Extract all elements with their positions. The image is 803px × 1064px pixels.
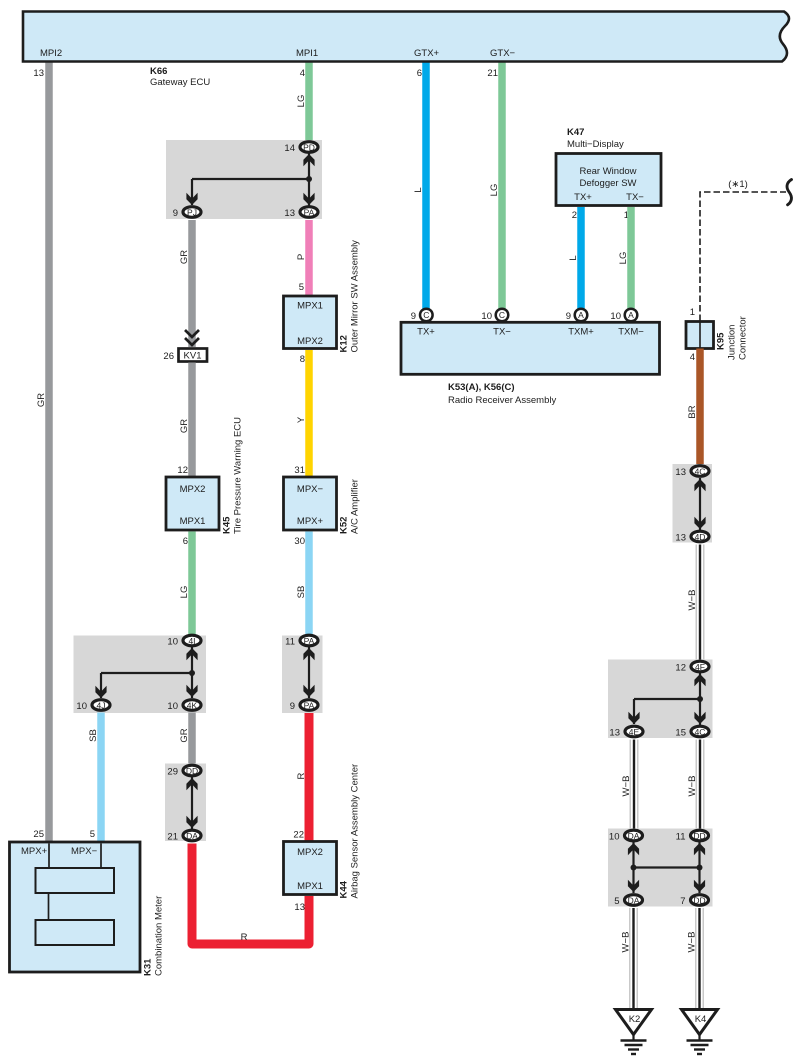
internal wiring lines <box>48 844 50 869</box>
svg-text:K47: K47 <box>567 127 584 138</box>
svg-text:5: 5 <box>299 282 304 293</box>
svg-text:GR: GR <box>36 393 47 407</box>
svg-text:13: 13 <box>33 68 44 79</box>
connector A pin10 <box>625 309 638 322</box>
connector DA pin21 <box>183 830 201 841</box>
svg-text:MPX−: MPX− <box>297 484 324 495</box>
svg-text:2: 2 <box>572 210 577 221</box>
svg-text:K45: K45 <box>222 516 233 534</box>
connector PJ pin9 <box>183 207 201 218</box>
dashed future wire (*1) <box>700 192 786 321</box>
svg-text:K52: K52 <box>339 517 350 534</box>
svg-text:4E: 4E <box>629 727 640 737</box>
svg-text:15: 15 <box>675 728 686 739</box>
svg-text:GR: GR <box>179 250 190 264</box>
svg-text:1: 1 <box>690 307 695 318</box>
connector 4F pin12 <box>691 661 709 672</box>
wire BR from K95 pin4 to 4C13 <box>696 349 704 471</box>
svg-text:4K: 4K <box>187 701 198 711</box>
internal block 1 <box>36 868 115 893</box>
wire W-B from 4C to DD11 <box>696 740 705 830</box>
svg-text:DA: DA <box>628 831 640 841</box>
svg-text:TXM+: TXM+ <box>568 327 594 338</box>
svg-text:4C: 4C <box>695 727 706 737</box>
svg-text:PA: PA <box>304 636 315 646</box>
svg-text:L: L <box>568 255 579 260</box>
svg-text:GR: GR <box>179 419 190 433</box>
svg-text:4J: 4J <box>97 701 106 711</box>
svg-text:10: 10 <box>76 701 87 712</box>
connector PA pin13 <box>300 207 318 218</box>
svg-text:13: 13 <box>284 208 295 219</box>
connector PD pin14 <box>300 142 318 153</box>
svg-text:MPI2: MPI2 <box>40 48 62 59</box>
svg-text:KV1: KV1 <box>184 351 202 362</box>
svg-text:11: 11 <box>676 832 686 843</box>
svg-text:4F: 4F <box>695 662 705 672</box>
wire GR from KV1 to K45 pin12 <box>188 363 196 479</box>
wire link 4C to 4D <box>699 478 701 530</box>
node dot <box>306 176 312 182</box>
wire L from GTX+ pin6 to radio C9 <box>422 62 430 310</box>
svg-text:A/C Amplifier: A/C Amplifier <box>350 479 361 534</box>
connector 4E pin13 <box>625 726 643 737</box>
svg-text:PA: PA <box>304 701 315 711</box>
svg-text:13: 13 <box>609 728 620 739</box>
svg-text:MPX2: MPX2 <box>297 847 323 858</box>
svg-text:4: 4 <box>690 352 695 363</box>
svg-text:R: R <box>296 772 307 779</box>
connector DD pin29 <box>183 765 201 776</box>
svg-text:GTX−: GTX− <box>490 48 516 59</box>
svg-text:6: 6 <box>183 536 188 547</box>
svg-text:10: 10 <box>481 311 492 322</box>
svg-text:DA: DA <box>628 896 640 906</box>
connector C pin10 <box>496 309 509 322</box>
wire SB from 4J to K31 pin5 <box>97 713 105 843</box>
connector 4I pin10 <box>183 635 201 646</box>
K52 A/C Amplifier box <box>284 477 337 530</box>
K12 Outer Mirror SW Assembly box <box>284 296 337 349</box>
svg-text:LG: LG <box>618 252 629 265</box>
top bus bar (Gateway ECU) <box>23 12 789 62</box>
svg-text:K44: K44 <box>339 880 350 898</box>
svg-text:9: 9 <box>411 311 416 322</box>
wire GR from MPI2 pin13 to K31 pin25 <box>45 62 53 842</box>
svg-text:R: R <box>241 932 248 943</box>
wire R from PA9 to K44 pin22 <box>305 713 314 842</box>
wire LG from GTX- pin21 to radio C10 <box>498 62 506 310</box>
svg-text:Rear Window: Rear Window <box>579 166 636 177</box>
svg-text:K12: K12 <box>339 335 350 352</box>
wire L from K47 TX+ pin2 to radio A9 <box>577 207 585 310</box>
svg-text:W−B: W−B <box>687 590 698 611</box>
wire W-B from 4D to 4F <box>696 545 705 662</box>
connector PA pin9 <box>300 700 318 711</box>
svg-text:8: 8 <box>300 354 305 365</box>
svg-text:Radio Receiver Assembly: Radio Receiver Assembly <box>448 395 556 406</box>
connector 4C pin13 <box>691 466 709 477</box>
connector PA pin11 <box>300 635 318 646</box>
svg-text:K4: K4 <box>695 1014 707 1025</box>
svg-text:TX+: TX+ <box>574 192 592 203</box>
junction shade box 4I/4J/4K <box>74 636 207 714</box>
wire link DD to DA <box>191 777 193 829</box>
wire link 4I to 4K with branch to 4J <box>191 647 193 698</box>
node dot <box>189 670 195 676</box>
svg-text:K95: K95 <box>716 332 727 350</box>
svg-text:Multi−Display: Multi−Display <box>567 139 624 150</box>
svg-text:12: 12 <box>675 663 686 674</box>
svg-text:Tire Pressure Warning ECU: Tire Pressure Warning ECU <box>233 417 244 534</box>
svg-text:MPI1: MPI1 <box>296 48 318 59</box>
svg-text:MPX2: MPX2 <box>297 336 323 347</box>
svg-text:MPX+: MPX+ <box>21 846 48 857</box>
K31 Combination Meter box <box>10 842 141 972</box>
node dot right <box>697 865 703 871</box>
svg-text:13: 13 <box>675 533 686 544</box>
svg-text:6: 6 <box>417 68 422 79</box>
node dot <box>697 696 703 702</box>
connector KV1 pin26 <box>179 349 208 362</box>
junction shade box PA/PA <box>282 636 323 714</box>
svg-text:MPX1: MPX1 <box>297 881 323 892</box>
svg-text:5: 5 <box>90 829 95 840</box>
svg-text:21: 21 <box>167 832 178 843</box>
svg-text:29: 29 <box>167 767 178 778</box>
svg-text:A: A <box>628 310 634 320</box>
ground K4 <box>682 1010 718 1055</box>
svg-text:30: 30 <box>294 536 305 547</box>
connector 4J pin10 <box>92 700 110 711</box>
ground K2 <box>616 1010 652 1055</box>
svg-text:Junction: Junction <box>727 325 738 360</box>
wire W-B from DA5 to ground K2 <box>629 908 638 1010</box>
K47 Rear Window Defogger SW box <box>556 154 661 206</box>
wire link PA11 to PA9 <box>308 647 310 698</box>
svg-text:SB: SB <box>88 729 99 742</box>
wire LG from K45 pin6 to 4I <box>188 532 196 641</box>
wire R from DA21 to K44 pin13 <box>192 844 309 945</box>
wire P from PA to K12 pin5 <box>305 220 313 296</box>
node dot left <box>631 865 637 871</box>
svg-text:MPX1: MPX1 <box>297 301 323 312</box>
svg-text:10: 10 <box>610 311 621 322</box>
K95 Junction Connector box <box>686 322 714 349</box>
svg-text:A: A <box>578 310 584 320</box>
svg-text:5: 5 <box>614 896 619 907</box>
svg-text:W−B: W−B <box>621 776 632 797</box>
wire W-B from 4E to DA10 <box>630 740 639 830</box>
wire LG from K47 TX- pin1 to radio A10 <box>627 207 635 310</box>
svg-text:TXM−: TXM− <box>618 327 644 338</box>
svg-text:Connector: Connector <box>738 316 749 360</box>
svg-text:DD: DD <box>186 766 198 776</box>
svg-text:SB: SB <box>296 586 307 599</box>
wire link DA10 to DA5 and DD11 to DD7 <box>632 842 634 893</box>
svg-text:W−B: W−B <box>687 932 698 953</box>
svg-text:13: 13 <box>675 467 686 478</box>
svg-text:13: 13 <box>294 902 305 913</box>
svg-text:26: 26 <box>163 351 174 362</box>
svg-text:DD: DD <box>693 831 705 841</box>
inline connector double chevron <box>185 330 199 337</box>
junction shade box 4F/4E/4C <box>608 660 713 739</box>
K53/K56 Radio Receiver Assembly box <box>401 322 660 374</box>
svg-text:9: 9 <box>290 701 295 712</box>
svg-text:TX−: TX− <box>493 327 511 338</box>
junction shade box 4C/4D <box>673 464 713 543</box>
svg-text:9: 9 <box>566 311 571 322</box>
svg-text:MPX−: MPX− <box>71 846 98 857</box>
svg-text:PA: PA <box>304 208 315 218</box>
junction shade box DA/DD <box>608 829 713 907</box>
svg-text:10: 10 <box>167 701 178 712</box>
svg-text:10: 10 <box>609 832 620 843</box>
connector DA pin5 <box>625 895 643 906</box>
svg-text:K31: K31 <box>143 958 154 976</box>
svg-text:LG: LG <box>179 586 190 599</box>
svg-text:Gateway ECU: Gateway ECU <box>150 77 210 88</box>
wire Y from K12 pin8 to K52 pin31 <box>305 350 313 478</box>
svg-text:11: 11 <box>285 637 295 648</box>
connector A pin9 <box>575 309 588 322</box>
connector DD pin11 <box>691 830 709 841</box>
connector 4C pin15 <box>691 726 709 737</box>
K45 Tire Pressure Warning ECU box <box>166 477 219 530</box>
svg-text:(∗1): (∗1) <box>728 179 748 190</box>
wire LG from MPI1 pin4 to PD <box>305 62 313 146</box>
svg-text:L: L <box>413 187 424 192</box>
svg-text:K2: K2 <box>629 1014 641 1025</box>
svg-text:TX−: TX− <box>626 192 644 203</box>
svg-text:Y: Y <box>296 416 307 423</box>
internal block 2 <box>36 920 115 945</box>
connector 4D pin13 <box>691 531 709 542</box>
svg-text:10: 10 <box>167 637 178 648</box>
svg-text:12: 12 <box>177 465 188 476</box>
svg-text:W−B: W−B <box>621 932 632 953</box>
svg-text:MPX2: MPX2 <box>180 484 206 495</box>
svg-text:4C: 4C <box>695 467 706 477</box>
wire GR from 4K to DD29 <box>188 713 196 765</box>
svg-text:Defogger SW: Defogger SW <box>579 178 636 189</box>
svg-text:LG: LG <box>296 95 307 108</box>
svg-text:4I: 4I <box>188 636 195 646</box>
svg-text:31: 31 <box>294 465 305 476</box>
svg-text:MPX1: MPX1 <box>180 516 206 527</box>
svg-text:21: 21 <box>487 68 498 79</box>
junction shade box PD/PJ/PA <box>166 140 322 219</box>
svg-text:LG: LG <box>489 184 500 197</box>
connector 4K pin10 <box>183 700 201 711</box>
svg-text:W−B: W−B <box>687 776 698 797</box>
svg-text:Airbag Sensor Assembly Center: Airbag Sensor Assembly Center <box>350 764 361 899</box>
svg-text:4: 4 <box>300 68 305 79</box>
svg-text:C: C <box>499 310 505 320</box>
svg-text:TX+: TX+ <box>417 327 435 338</box>
svg-text:K53(A), K56(C): K53(A), K56(C) <box>448 382 515 393</box>
connector C pin9 <box>420 309 433 322</box>
svg-text:GR: GR <box>179 728 190 742</box>
svg-text:DA: DA <box>186 831 198 841</box>
svg-text:PJ: PJ <box>187 208 197 218</box>
svg-text:4D: 4D <box>695 532 706 542</box>
svg-text:K66: K66 <box>150 66 167 77</box>
svg-text:7: 7 <box>680 896 685 907</box>
wire GR from PJ to KV1 <box>188 220 196 347</box>
svg-text:Combination Meter: Combination Meter <box>154 896 165 976</box>
K44 Airbag Sensor Assembly Center box <box>284 842 337 895</box>
svg-text:25: 25 <box>33 829 44 840</box>
svg-text:P: P <box>296 254 307 260</box>
svg-text:14: 14 <box>284 143 295 154</box>
svg-text:C: C <box>423 310 429 320</box>
connector DA pin10 <box>625 830 643 841</box>
break squiggle <box>787 180 791 205</box>
wire link 4F branch to 4E and 4C <box>699 673 701 725</box>
wire link PD to PA with junction <box>308 153 310 206</box>
svg-text:Outer Mirror SW Assembly: Outer Mirror SW Assembly <box>350 240 361 353</box>
svg-text:GTX+: GTX+ <box>414 48 440 59</box>
junction shade box DD/DA <box>165 764 206 842</box>
svg-text:22: 22 <box>293 830 304 841</box>
svg-text:PD: PD <box>303 143 315 153</box>
wire W-B from DD7 to ground K4 <box>695 908 704 1010</box>
svg-text:9: 9 <box>173 208 178 219</box>
wire SB from K52 pin30 to PA11 <box>305 532 313 641</box>
svg-text:BR: BR <box>687 405 698 418</box>
svg-text:MPX+: MPX+ <box>297 516 324 527</box>
connector DD pin7 <box>691 895 709 906</box>
svg-text:DD: DD <box>693 896 705 906</box>
